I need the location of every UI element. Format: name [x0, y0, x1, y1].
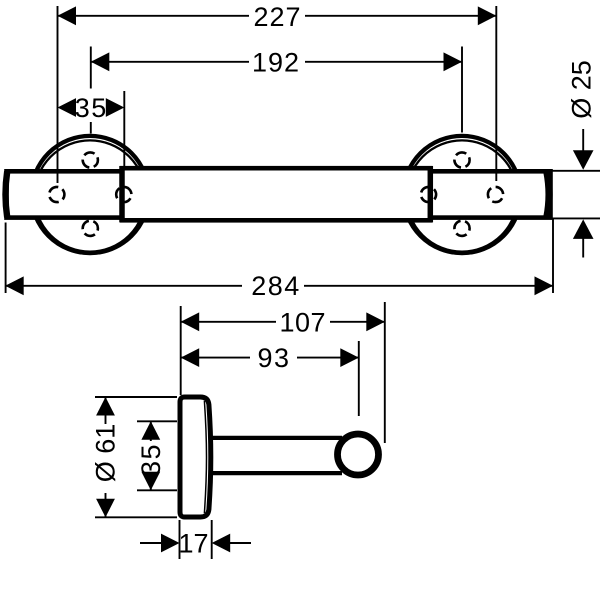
wall plate left (flange, front view) [31, 136, 148, 253]
dimension 192 arrow left [91, 52, 110, 71]
screw hole right flange E (hidden, dashed) [488, 187, 503, 202]
dimension 227 arrow right [478, 6, 497, 25]
dimension 35 (side) arrow top [141, 421, 160, 440]
dimension 107 extension line left / wall line [180, 306, 182, 395]
screw hole right flange N (hidden, dashed) [454, 152, 469, 167]
svg-text:93: 93 [257, 343, 290, 373]
dimension 192 line [91, 61, 462, 63]
screw hole left flange N (hidden, dashed) [83, 152, 98, 167]
dimension 107 line [181, 321, 385, 323]
grip junction line left [119, 166, 125, 222]
screw hole left flange S (hidden, dashed) [83, 221, 98, 236]
bar bottom edge extension line to right [552, 217, 600, 219]
side view: bar arm bottom line [209, 471, 342, 475]
svg-text:107: 107 [280, 308, 327, 338]
side view: wall plate profile [180, 397, 211, 517]
dimension Ø61 arrow top [96, 397, 115, 416]
dimension 17 extension line right [211, 520, 213, 559]
grab bar middle grip section [122, 168, 430, 220]
dimension 17 extension line left [179, 520, 181, 559]
dimension Ø61 extension line bottom [95, 516, 177, 518]
wall plate right (flange, front view) [403, 136, 520, 253]
dimension 35 arrow right (outward) [106, 98, 125, 117]
dimension 284 extension line left [5, 223, 7, 294]
dimension 35 arrow left (outward) [58, 98, 77, 117]
dimension 284 arrow right [535, 276, 554, 295]
dimension 35 (side) line [150, 421, 152, 490]
dimension Ø61 line [105, 397, 107, 517]
screw hole left flange E (hidden, dashed) [116, 187, 131, 202]
dimension 35 (side) extension line top [137, 420, 177, 422]
dimension 93 line [181, 357, 359, 359]
dimension 93 arrow left [181, 348, 200, 367]
dimension 35 extension line right [123, 91, 125, 168]
dimension 17 arrow right (outside pointing left) [212, 534, 251, 553]
dimension 284 arrow left [5, 276, 24, 295]
svg-text:192: 192 [252, 48, 300, 78]
dimension 227 arrow left [58, 6, 77, 25]
bar top edge extension line to right [552, 170, 600, 172]
dimension 107 arrow right [366, 312, 385, 331]
dimension 35 (side) arrow bottom [141, 472, 160, 491]
screw hole left flange W (hidden, dashed) [49, 187, 64, 202]
svg-text:17: 17 [178, 529, 208, 559]
svg-text:Ø 25: Ø 25 [567, 60, 597, 119]
svg-text:284: 284 [251, 271, 301, 301]
dimension Ø61 extension line top [95, 396, 177, 398]
dimension 284 line [6, 285, 553, 287]
dimension 35 (side) extension line bottom [137, 489, 177, 491]
svg-text:35: 35 [136, 443, 166, 476]
dimension 93 extension line right [358, 341, 360, 416]
dimension Ø25 arrow lower (points up to bar bottom) [573, 219, 594, 257]
dimension 192 extension line right [461, 47, 463, 133]
grab bar left end section [6, 171, 123, 217]
dimension 227 extension line left [57, 6, 59, 183]
svg-text:35: 35 [75, 93, 108, 123]
dimension 192 arrow right [444, 52, 463, 71]
dimension 227 line [58, 15, 497, 17]
grab bar right end section [430, 171, 551, 217]
side view: bar end ball [338, 434, 379, 475]
dimension 107 extension line right [384, 302, 386, 443]
svg-text:227: 227 [253, 2, 301, 32]
screw hole right flange W (hidden, dashed) [421, 187, 436, 202]
dimension 284 extension line right [552, 219, 554, 293]
dimension Ø25 arrow upper (points down to bar top) [573, 129, 594, 170]
dimension 227 extension line right [495, 6, 497, 181]
dimension 17 arrow left (outside pointing right) [140, 534, 180, 553]
dimension 93 arrow right [340, 348, 359, 367]
dimension Ø61 arrow bottom [96, 499, 115, 518]
dimension 192 extension line left (gapped at 35 label) [90, 47, 92, 134]
svg-text:Ø 61: Ø 61 [91, 424, 121, 483]
grip junction line right [428, 166, 434, 222]
screw hole right flange S (hidden, dashed) [454, 221, 469, 236]
dimension 107 arrow left [181, 312, 200, 331]
side view: bar arm top line [209, 436, 342, 440]
